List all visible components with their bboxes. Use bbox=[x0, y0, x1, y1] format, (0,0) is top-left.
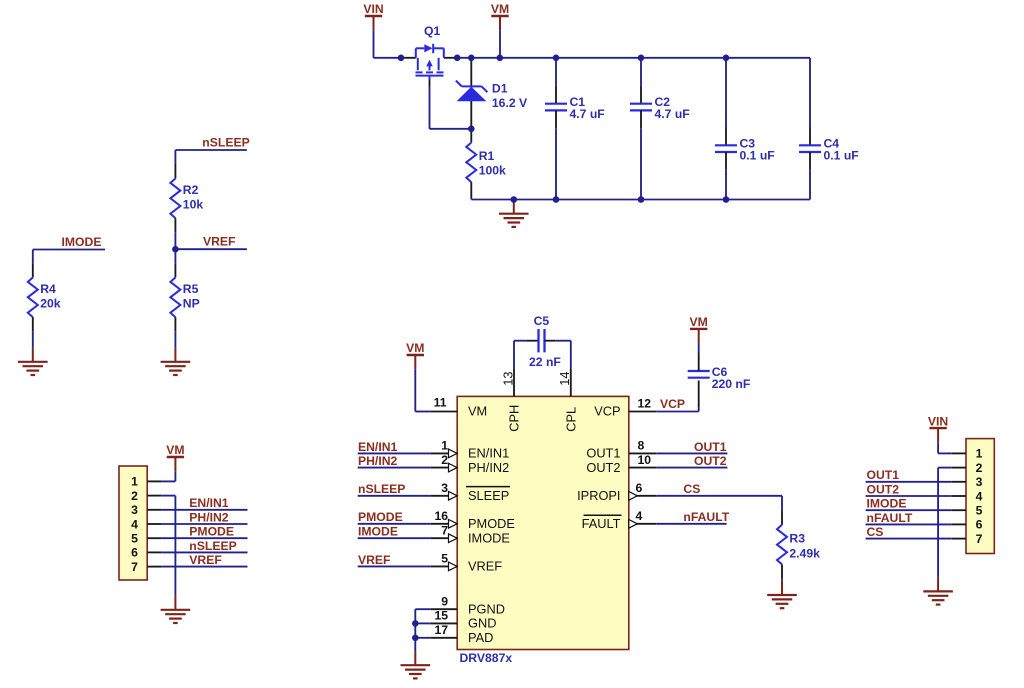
svg-text:4.7 uF: 4.7 uF bbox=[655, 107, 690, 121]
svg-text:4: 4 bbox=[636, 509, 643, 523]
svg-text:FAULT: FAULT bbox=[582, 516, 621, 531]
svg-text:nSLEEP: nSLEEP bbox=[358, 482, 405, 496]
svg-text:2: 2 bbox=[441, 453, 448, 467]
svg-text:VREF: VREF bbox=[189, 553, 222, 567]
svg-text:nSLEEP: nSLEEP bbox=[189, 539, 236, 553]
svg-text:5: 5 bbox=[441, 552, 448, 566]
svg-text:PGND: PGND bbox=[468, 601, 505, 616]
svg-text:13: 13 bbox=[500, 371, 515, 385]
svg-text:OUT2: OUT2 bbox=[586, 460, 620, 475]
svg-text:4: 4 bbox=[976, 489, 983, 503]
svg-text:VREF: VREF bbox=[203, 235, 236, 249]
svg-text:R2: R2 bbox=[183, 183, 199, 197]
svg-text:C5: C5 bbox=[534, 314, 550, 328]
svg-text:5: 5 bbox=[131, 532, 138, 546]
svg-text:1: 1 bbox=[131, 475, 138, 489]
svg-text:VM: VM bbox=[690, 315, 708, 329]
svg-text:100k: 100k bbox=[479, 164, 506, 178]
svg-text:OUT2: OUT2 bbox=[867, 482, 900, 496]
svg-text:EN/IN1: EN/IN1 bbox=[189, 496, 229, 510]
svg-text:11: 11 bbox=[434, 395, 447, 409]
svg-text:CPL: CPL bbox=[563, 407, 578, 432]
svg-text:14: 14 bbox=[557, 371, 572, 385]
svg-text:6: 6 bbox=[976, 518, 983, 532]
svg-text:R5: R5 bbox=[183, 282, 199, 296]
svg-text:EN/IN1: EN/IN1 bbox=[358, 440, 398, 454]
svg-text:IPROPI: IPROPI bbox=[577, 488, 620, 503]
svg-text:CS: CS bbox=[683, 482, 700, 496]
svg-text:8: 8 bbox=[638, 439, 645, 453]
svg-text:16.2 V: 16.2 V bbox=[492, 96, 528, 110]
svg-text:7: 7 bbox=[131, 560, 138, 574]
svg-text:22 nF: 22 nF bbox=[529, 355, 561, 369]
svg-text:VM: VM bbox=[166, 443, 184, 457]
svg-text:OUT1: OUT1 bbox=[586, 446, 620, 461]
svg-text:17: 17 bbox=[434, 623, 448, 637]
svg-text:IMODE: IMODE bbox=[867, 497, 907, 511]
svg-text:1: 1 bbox=[441, 439, 448, 453]
svg-text:CS: CS bbox=[867, 525, 884, 539]
svg-text:5: 5 bbox=[976, 504, 983, 518]
svg-text:PMODE: PMODE bbox=[468, 516, 515, 531]
svg-text:VM: VM bbox=[406, 341, 424, 355]
svg-text:nFAULT: nFAULT bbox=[867, 511, 913, 525]
svg-text:OUT1: OUT1 bbox=[694, 440, 727, 454]
svg-text:220 nF: 220 nF bbox=[712, 377, 751, 391]
svg-text:4: 4 bbox=[131, 517, 138, 531]
svg-text:0.1 uF: 0.1 uF bbox=[740, 149, 775, 163]
svg-text:PAD: PAD bbox=[468, 630, 493, 645]
svg-text:3: 3 bbox=[976, 475, 983, 489]
svg-text:IMODE: IMODE bbox=[358, 525, 398, 539]
svg-text:10: 10 bbox=[638, 453, 652, 467]
svg-text:R1: R1 bbox=[479, 149, 495, 163]
svg-text:PH/IN2: PH/IN2 bbox=[189, 510, 229, 524]
svg-text:7: 7 bbox=[441, 523, 448, 537]
svg-text:VREF: VREF bbox=[358, 553, 391, 567]
svg-text:3: 3 bbox=[441, 481, 448, 495]
svg-text:EN/IN1: EN/IN1 bbox=[468, 446, 509, 461]
svg-text:D1: D1 bbox=[492, 82, 508, 96]
svg-text:SLEEP: SLEEP bbox=[468, 488, 509, 503]
svg-text:PH/IN2: PH/IN2 bbox=[358, 454, 398, 468]
svg-text:OUT1: OUT1 bbox=[867, 468, 900, 482]
svg-text:0.1 uF: 0.1 uF bbox=[824, 149, 859, 163]
svg-text:VCP: VCP bbox=[594, 404, 620, 419]
svg-text:10k: 10k bbox=[183, 198, 204, 212]
svg-text:IMODE: IMODE bbox=[468, 530, 510, 545]
svg-text:20k: 20k bbox=[40, 297, 61, 311]
svg-text:PH/IN2: PH/IN2 bbox=[468, 460, 509, 475]
svg-text:nSLEEP: nSLEEP bbox=[202, 136, 249, 150]
svg-text:VREF: VREF bbox=[468, 559, 502, 574]
svg-text:2: 2 bbox=[131, 489, 138, 503]
svg-text:IMODE: IMODE bbox=[62, 235, 102, 249]
svg-text:6: 6 bbox=[131, 546, 138, 560]
svg-text:7: 7 bbox=[976, 532, 983, 546]
svg-text:Q1: Q1 bbox=[424, 24, 440, 38]
svg-text:R4: R4 bbox=[40, 282, 56, 296]
svg-text:VCP: VCP bbox=[660, 397, 685, 411]
svg-text:4.7 uF: 4.7 uF bbox=[570, 107, 605, 121]
svg-text:VM: VM bbox=[468, 404, 487, 419]
svg-text:12: 12 bbox=[638, 397, 652, 411]
svg-text:2: 2 bbox=[976, 461, 983, 475]
svg-text:OUT2: OUT2 bbox=[694, 454, 727, 468]
svg-text:16: 16 bbox=[434, 509, 448, 523]
svg-text:NP: NP bbox=[183, 297, 200, 311]
svg-text:R3: R3 bbox=[789, 532, 805, 546]
svg-text:15: 15 bbox=[434, 609, 448, 623]
svg-text:nFAULT: nFAULT bbox=[683, 510, 729, 524]
svg-text:DRV887x: DRV887x bbox=[460, 651, 513, 665]
svg-text:1: 1 bbox=[976, 447, 983, 461]
svg-text:2.49k: 2.49k bbox=[789, 547, 820, 561]
svg-text:PMODE: PMODE bbox=[189, 525, 234, 539]
svg-text:CPH: CPH bbox=[507, 405, 522, 432]
svg-text:VIN: VIN bbox=[928, 414, 948, 428]
svg-text:9: 9 bbox=[441, 594, 448, 608]
svg-text:6: 6 bbox=[636, 481, 643, 495]
svg-text:VM: VM bbox=[491, 2, 509, 16]
svg-text:PMODE: PMODE bbox=[358, 510, 403, 524]
svg-text:3: 3 bbox=[131, 503, 138, 517]
svg-text:GND: GND bbox=[468, 616, 496, 631]
svg-text:VIN: VIN bbox=[363, 2, 383, 16]
